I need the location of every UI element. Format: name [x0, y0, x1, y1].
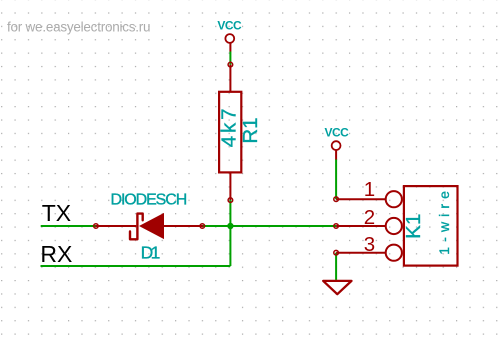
svg-text:D1: D1: [141, 242, 160, 262]
svg-text:VCC: VCC: [324, 126, 349, 140]
svg-text:R1: R1: [239, 118, 262, 144]
svg-text:DIODESCH: DIODESCH: [111, 192, 187, 209]
svg-text:TX: TX: [42, 200, 71, 226]
svg-text:VCC: VCC: [217, 18, 242, 32]
svg-text:1: 1: [364, 178, 375, 201]
svg-text:3: 3: [364, 233, 375, 256]
svg-text:K1: K1: [402, 213, 425, 238]
svg-text:RX: RX: [40, 241, 72, 267]
svg-text:1-wire: 1-wire: [436, 186, 452, 255]
svg-text:for we.easyelectronics.ru: for we.easyelectronics.ru: [7, 20, 150, 35]
svg-text:4k7: 4k7: [218, 106, 241, 148]
svg-text:2: 2: [364, 206, 375, 229]
